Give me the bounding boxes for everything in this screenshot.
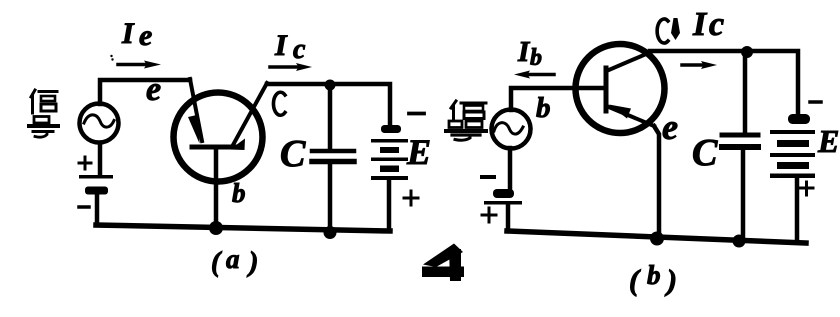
capacitor C branch wire lower (b): [741, 150, 746, 238]
battery plus label (b): [800, 182, 813, 195]
svg-text:I: I: [517, 36, 531, 68]
collector lead (b): [607, 52, 653, 72]
svg-text:a: a: [226, 244, 240, 274]
wire source-top to base (b): [511, 88, 604, 110]
wire left battery to bottom (b): [506, 205, 511, 231]
svg-text:e: e: [146, 71, 161, 108]
left battery plates (a): [79, 175, 113, 195]
junction node top (a): [325, 80, 336, 91]
svg-text:C: C: [692, 132, 718, 174]
bottom wire (b): [507, 231, 806, 243]
label 信 (signal) circuit a: [31, 90, 57, 113]
arrow Ic (right) (a): [270, 65, 300, 69]
svg-text:): ): [246, 247, 258, 278]
left battery plates (b): [484, 189, 522, 205]
svg-text:b: b: [530, 45, 542, 71]
capacitor C branch wire upper (a): [328, 86, 333, 148]
svg-text:b: b: [232, 178, 246, 208]
label c (a): [273, 92, 285, 115]
junction node cap-bottom (b): [733, 235, 746, 248]
battery E plates (a): [371, 125, 408, 180]
battery E plates (b): [770, 114, 815, 178]
label C collector top (b): [657, 19, 668, 43]
label 号 (signal) circuit b: [446, 121, 486, 140]
wire source-bottom to left battery (b): [508, 148, 513, 189]
battery plus label (a): [404, 191, 418, 205]
capacitor C plates (a): [312, 149, 354, 154]
wire battery to bottom (a): [387, 180, 392, 230]
arrow Ic (right) (b): [682, 63, 704, 67]
arrow Ib (left): [527, 73, 554, 77]
svg-text:I: I: [121, 17, 135, 50]
capacitor C branch wire upper (b): [743, 53, 748, 132]
junction node top (b): [741, 46, 753, 58]
capacitor C plates (b): [722, 133, 758, 138]
top wire collector to battery (a): [267, 84, 390, 128]
collector arrowhead at bar (a): [230, 139, 245, 151]
minus label left battery (a): [79, 205, 89, 209]
junction node emitter-bottom (b): [650, 232, 664, 246]
transistor Q1 circle (a): [174, 93, 263, 182]
svg-text:E: E: [817, 123, 839, 159]
signal source AC circle (a): [80, 104, 119, 143]
svg-text:): ): [664, 264, 677, 297]
svg-text:I: I: [692, 6, 708, 43]
emitter arrowhead (a) PNP: [188, 115, 200, 144]
minus label left battery (b): [482, 175, 494, 179]
wire battery to bottom (b): [795, 178, 800, 241]
wire source-bottom to left battery (a): [98, 143, 103, 175]
label 号 (signal) circuit a: [29, 117, 58, 138]
base bar (a): [192, 145, 237, 150]
svg-text:C: C: [280, 133, 306, 175]
wire left battery to bottom (a): [95, 194, 100, 225]
junction node cap-bottom (a): [324, 226, 337, 239]
base bar vertical (b): [604, 68, 609, 111]
sine wave inside source (b): [494, 123, 523, 134]
svg-text:c: c: [709, 6, 724, 43]
svg-text:E: E: [406, 132, 431, 172]
junction node base-bottom (a): [209, 221, 223, 235]
arrow Ie (right): [118, 63, 146, 67]
figure number 4: [422, 244, 464, 282]
svg-text:e: e: [662, 107, 678, 147]
base lead down (a): [214, 149, 219, 228]
battery minus label (a): [409, 112, 424, 116]
plus label left battery (a): [79, 157, 91, 169]
sine wave inside source (a): [84, 115, 114, 127]
svg-text:c: c: [293, 34, 306, 65]
bottom wire (a): [96, 225, 390, 231]
label 信 (signal) circuit b: [451, 101, 486, 119]
capacitor C branch wire lower (a): [328, 164, 333, 230]
emitter wire down (b): [654, 126, 659, 238]
collector lead diagonal (a): [233, 83, 267, 145]
svg-text:(: (: [211, 247, 222, 278]
small down arrow mark (b): [671, 18, 680, 40]
top wire collector to battery (b): [650, 51, 798, 114]
svg-text:b: b: [647, 260, 661, 290]
transistor Q2 circle (b): [576, 44, 665, 133]
signal source AC circle (b): [492, 110, 531, 149]
emitter lead (b): [607, 106, 655, 126]
battery minus label (b): [810, 100, 821, 104]
emitter arrowhead (b) PNP: [609, 105, 631, 119]
plus label left battery (b): [482, 208, 496, 222]
svg-text:I: I: [274, 29, 288, 62]
emitter lead diagonal (a): [190, 79, 202, 141]
wire source-top to emitter corner (a): [100, 80, 190, 104]
svg-text:(: (: [629, 264, 641, 297]
svg-text:e: e: [139, 19, 152, 52]
svg-text:b: b: [536, 92, 551, 124]
